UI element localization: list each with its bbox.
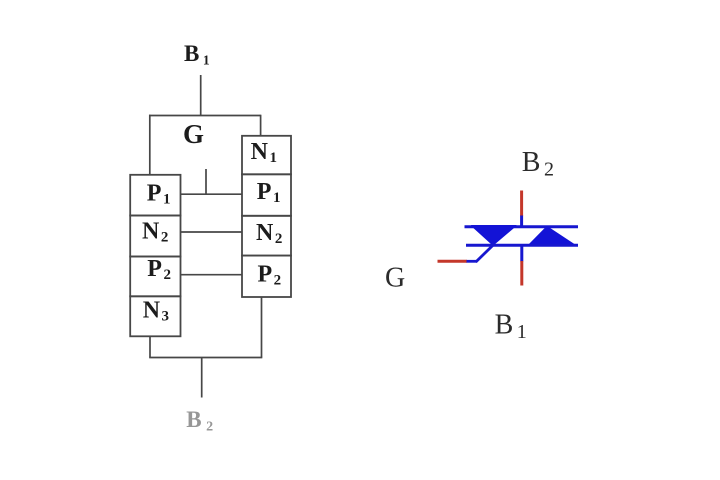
region N2 right box [242,216,291,256]
wire right drop to N1 [260,115,262,137]
terminal B2 lead blue [520,216,523,229]
region P2 right box [242,256,291,297]
node B2 label (structure diagram, gray) [186,407,213,435]
wire B1 lead vertical [200,75,202,116]
svg-text:P2: P2 [147,256,171,283]
triac right triangle [528,227,575,246]
wire connector N2-N2 [181,231,243,233]
wire right bottom drop [261,297,263,358]
svg-text:G: G [183,119,204,149]
gate lead red [438,260,468,263]
svg-text:B2: B2 [522,147,554,181]
wire left bottom drop [149,336,151,357]
wire top horizontal bus [149,115,261,117]
svg-text:N3: N3 [143,297,169,324]
wire bottom horizontal bus [149,357,262,359]
terminal B1 lead blue [520,245,523,262]
region N3 left box [130,296,180,336]
svg-text:B2: B2 [186,407,213,435]
wire connector P1-P1 [181,193,243,195]
node B1 label (structure diagram) [184,41,210,68]
wire B2 lead vertical [201,358,203,398]
terminal B2 lead red [520,191,523,217]
terminal B1 lead red [520,261,523,286]
region N1 right box [242,136,291,175]
node B2 label (symbol) [522,147,554,181]
triac bottom bar [466,244,578,247]
region P1 right box [242,174,291,216]
svg-text:N1: N1 [251,139,277,166]
wire left drop to P1 [149,115,151,176]
svg-text:B1: B1 [184,41,210,68]
region P1 left box [130,175,180,216]
svg-text:P1: P1 [257,179,281,206]
gate lead blue diagonal [476,244,495,262]
region N2 left box [130,216,180,257]
node G label (symbol) [385,262,405,293]
wire connector P2-P2 [181,274,243,276]
triac top bar [465,225,579,228]
svg-text:N2: N2 [142,218,168,245]
region P2 left box [130,256,180,297]
svg-text:G: G [385,262,405,293]
triac left triangle [472,226,517,245]
svg-text:N2: N2 [256,220,282,247]
gate lead blue horizontal [467,260,478,263]
svg-text:B1: B1 [495,309,527,343]
svg-text:P1: P1 [147,180,171,207]
node G label (structure diagram) [183,119,204,149]
svg-text:P2: P2 [258,261,282,288]
node B1 label (symbol) [495,309,527,343]
wire gate stub [205,169,207,194]
